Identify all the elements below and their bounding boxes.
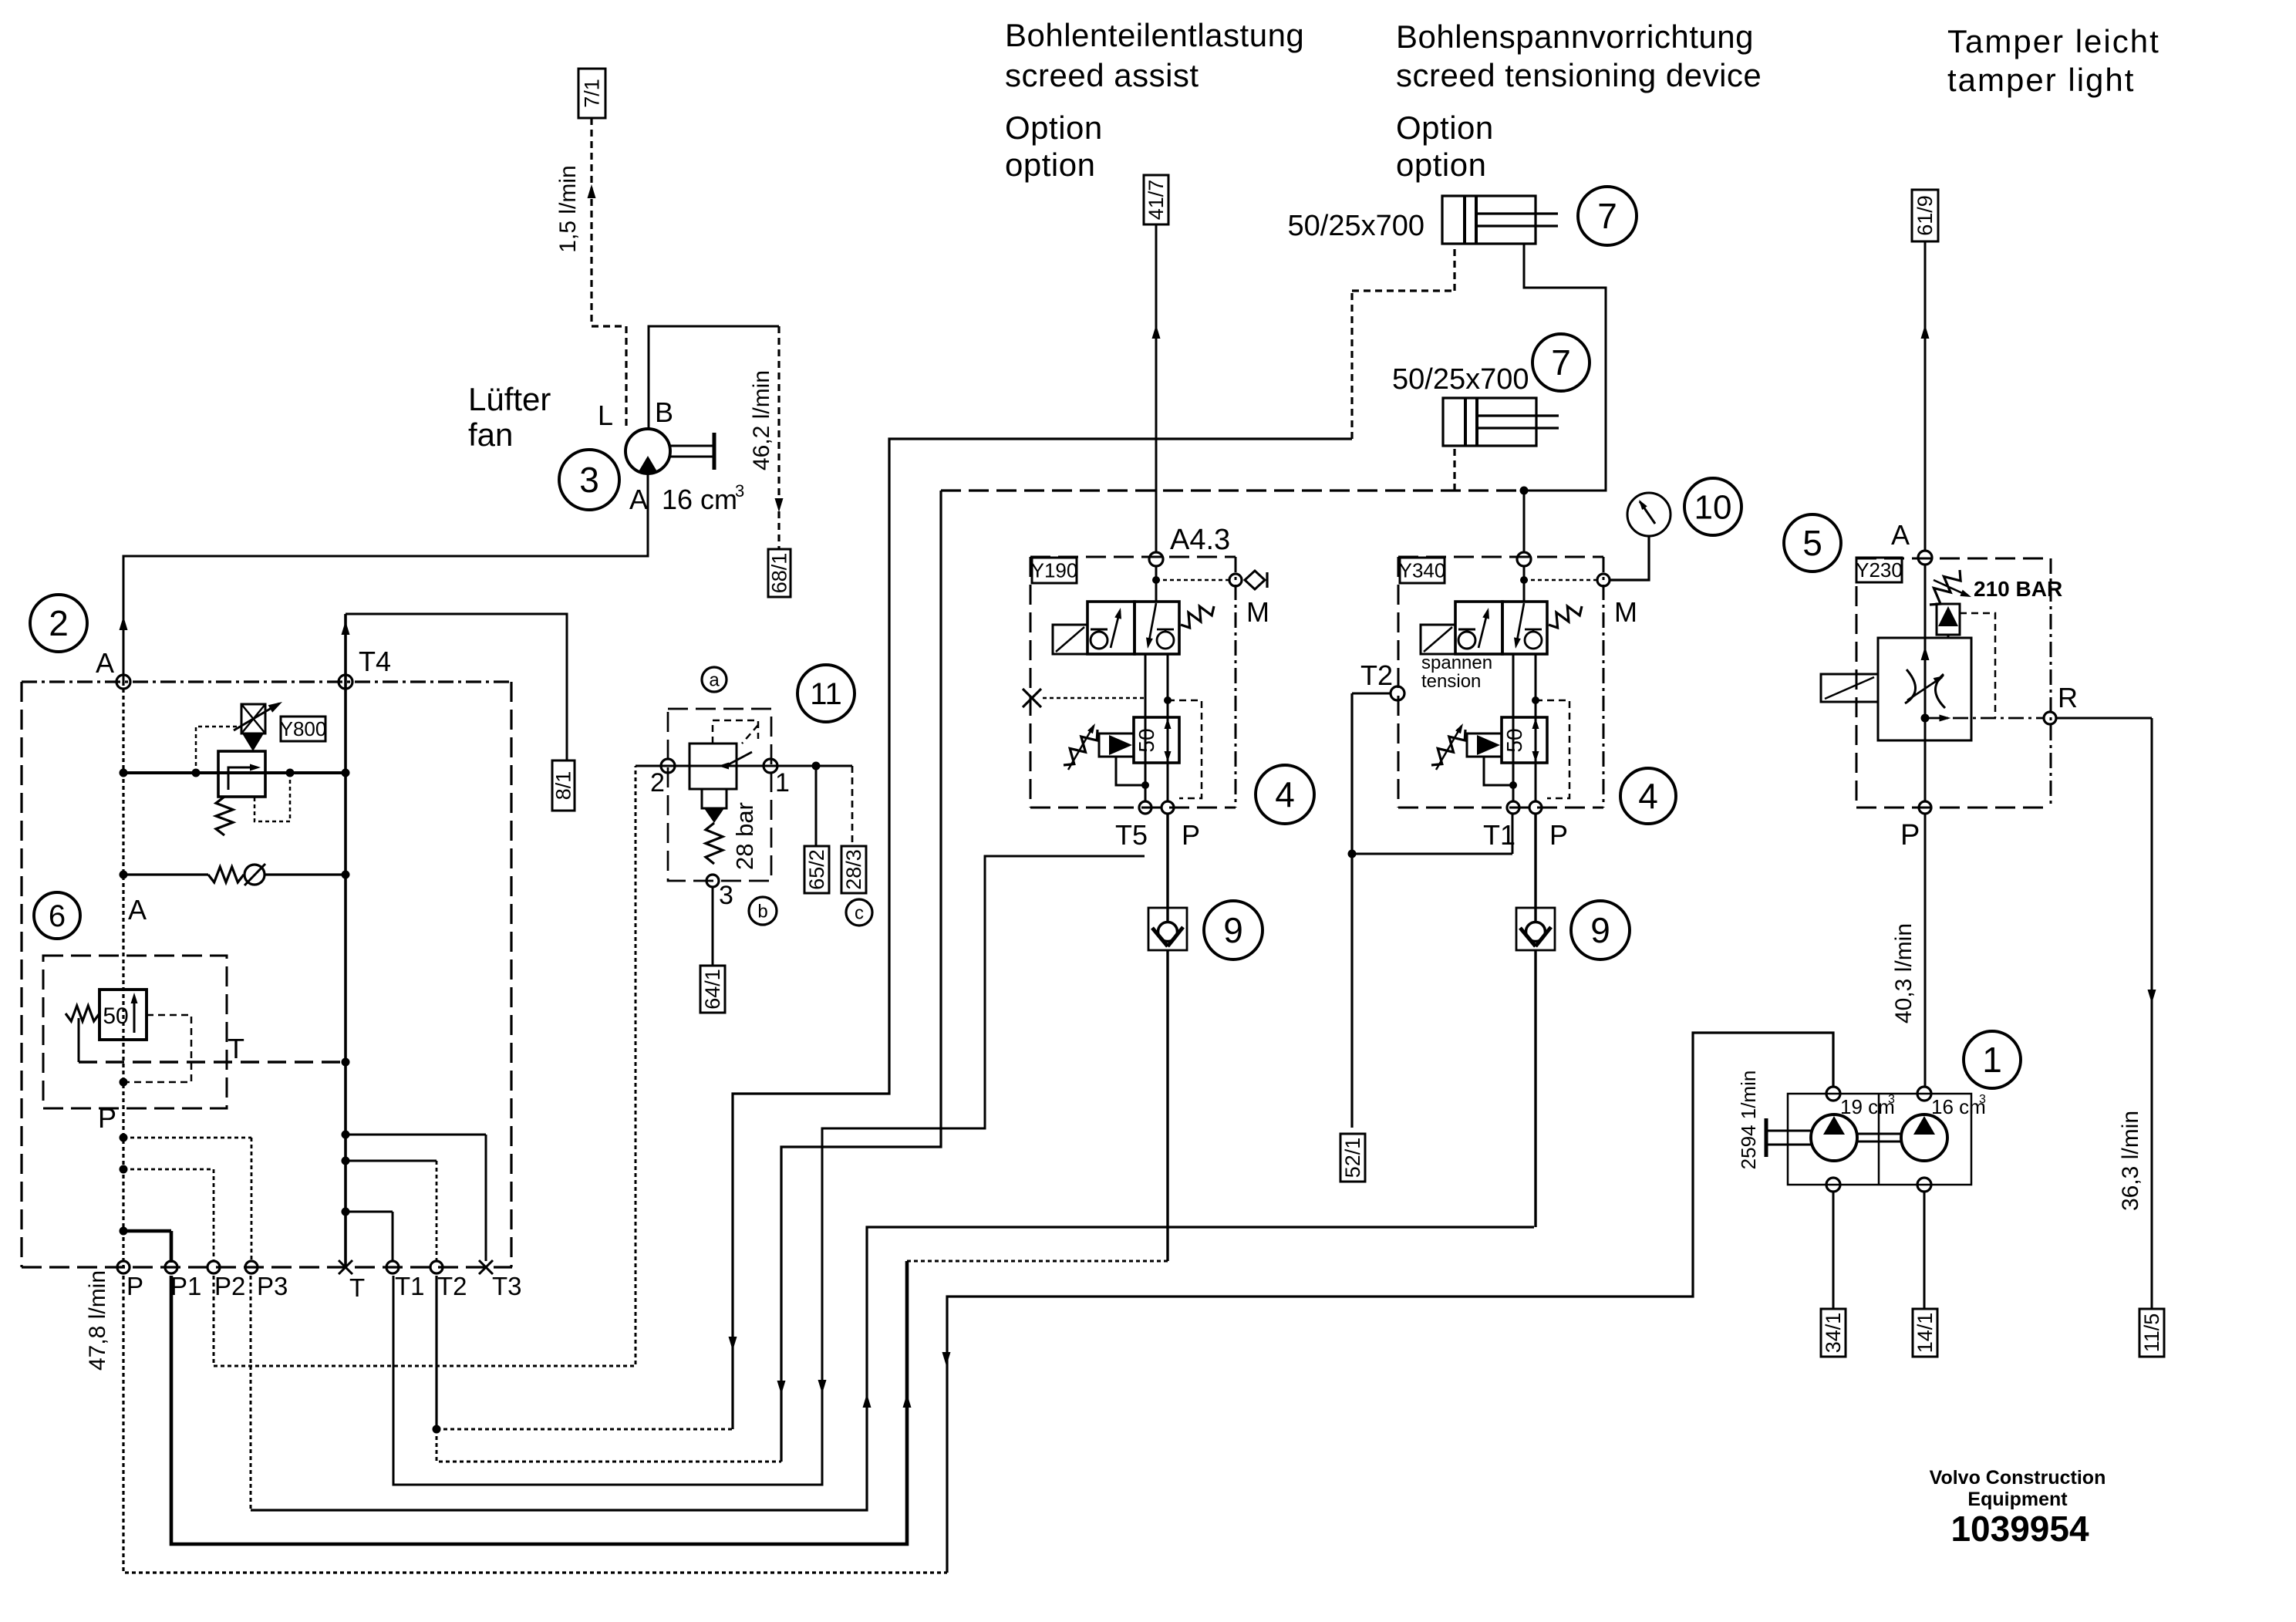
svg-text:65/2: 65/2 [805,849,828,890]
svg-text:8/1: 8/1 [552,771,575,801]
svg-text:P1: P1 [170,1272,201,1300]
svg-text:Equipment: Equipment [1967,1489,2068,1510]
svg-text:screed assist: screed assist [1005,57,1199,93]
svg-text:P: P [1182,819,1200,851]
svg-text:1: 1 [1982,1040,2002,1080]
svg-text:T1: T1 [1483,819,1515,851]
svg-text:50: 50 [103,1003,128,1029]
svg-text:T4: T4 [359,646,391,677]
svg-text:5: 5 [1802,523,1822,563]
svg-text:tension: tension [1421,671,1481,692]
svg-text:Lüfter: Lüfter [468,381,551,417]
svg-text:28 bar: 28 bar [731,802,758,870]
svg-text:1039954: 1039954 [1950,1509,2089,1549]
svg-text:Bohlenspannvorrichtung: Bohlenspannvorrichtung [1396,19,1754,55]
svg-text:47,8 l/min: 47,8 l/min [85,1270,110,1371]
svg-text:P2: P2 [214,1272,245,1300]
svg-text:210 BAR: 210 BAR [1974,577,2062,601]
svg-text:T2: T2 [1360,659,1393,691]
svg-text:P: P [1549,819,1568,851]
svg-text:1: 1 [775,768,790,798]
svg-text:Y340: Y340 [1399,559,1446,582]
svg-text:16 cm: 16 cm [1931,1095,1986,1118]
svg-text:2594 1/min: 2594 1/min [1737,1071,1760,1170]
svg-text:a: a [709,669,720,690]
svg-text:28/3: 28/3 [842,849,865,890]
svg-text:11/5: 11/5 [2140,1313,2163,1353]
svg-text:R: R [2058,682,2078,713]
svg-text:2: 2 [650,768,665,798]
svg-text:Y190: Y190 [1031,559,1078,582]
svg-text:7: 7 [1551,342,1571,383]
svg-text:T2: T2 [437,1272,467,1300]
svg-text:50: 50 [1502,728,1526,752]
svg-text:P: P [1900,819,1920,851]
svg-text:Tamper leicht: Tamper leicht [1947,23,2160,59]
svg-text:T3: T3 [492,1272,522,1300]
svg-text:screed tensioning device: screed tensioning device [1396,57,1762,93]
svg-text:tamper light: tamper light [1947,62,2135,98]
svg-text:A: A [629,484,648,515]
svg-text:spannen: spannen [1421,653,1492,673]
svg-text:P: P [126,1272,143,1300]
svg-text:Option: Option [1396,110,1494,146]
svg-text:Y800: Y800 [280,717,327,740]
svg-text:3: 3 [719,881,733,910]
svg-text:fan: fan [468,416,513,453]
svg-text:11: 11 [810,677,842,711]
svg-text:L: L [598,400,613,431]
svg-text:50: 50 [1135,728,1158,752]
svg-text:36,3 l/min: 36,3 l/min [2118,1111,2143,1211]
svg-text:41/7: 41/7 [1145,180,1168,221]
svg-text:b: b [757,901,767,922]
svg-text:16 cm: 16 cm [662,484,737,515]
svg-text:T1: T1 [395,1272,425,1300]
svg-text:52/1: 52/1 [1341,1138,1364,1179]
svg-text:6: 6 [49,899,66,933]
svg-text:64/1: 64/1 [701,969,724,1010]
svg-text:50/25x700: 50/25x700 [1288,210,1425,242]
svg-text:68/1: 68/1 [768,553,791,594]
svg-text:P: P [98,1102,116,1134]
svg-text:3: 3 [735,481,744,501]
svg-text:2: 2 [49,603,69,643]
svg-text:4: 4 [1275,774,1295,814]
svg-text:T: T [228,1033,244,1064]
svg-text:1,5 l/min: 1,5 l/min [555,165,581,252]
svg-text:3: 3 [1979,1093,1986,1106]
svg-text:T: T [349,1273,365,1302]
svg-text:B: B [655,396,673,428]
svg-text:50/25x700: 50/25x700 [1392,363,1529,396]
svg-text:A: A [1891,519,1910,551]
svg-text:A4.3: A4.3 [1170,524,1230,556]
svg-text:3: 3 [1888,1093,1895,1106]
svg-text:option: option [1005,147,1095,183]
svg-text:P3: P3 [257,1272,288,1300]
svg-text:M: M [1614,596,1637,628]
svg-text:Volvo Construction: Volvo Construction [1930,1467,2106,1489]
svg-text:A: A [128,894,147,926]
svg-text:19 cm: 19 cm [1840,1095,1895,1118]
svg-text:3: 3 [579,460,599,500]
svg-text:Y230: Y230 [1856,558,1903,582]
svg-text:9: 9 [1590,910,1610,950]
svg-text:7: 7 [1597,196,1617,236]
svg-text:A: A [96,647,114,679]
svg-text:Option: Option [1005,110,1103,146]
svg-text:T5: T5 [1115,819,1148,851]
svg-text:M: M [1246,596,1269,628]
svg-text:Bohlenteilentlastung: Bohlenteilentlastung [1005,17,1304,53]
svg-text:34/1: 34/1 [1822,1313,1845,1354]
svg-text:10: 10 [1694,488,1732,526]
svg-text:7/1: 7/1 [581,79,604,108]
svg-text:9: 9 [1223,910,1243,950]
svg-text:4: 4 [1638,776,1658,816]
svg-text:c: c [855,902,864,923]
svg-text:option: option [1396,147,1486,183]
svg-text:40,3 l/min: 40,3 l/min [1891,923,1917,1023]
svg-text:61/9: 61/9 [1913,195,1937,236]
svg-text:46,2 l/min: 46,2 l/min [749,370,774,470]
svg-text:14/1: 14/1 [1913,1313,1937,1354]
